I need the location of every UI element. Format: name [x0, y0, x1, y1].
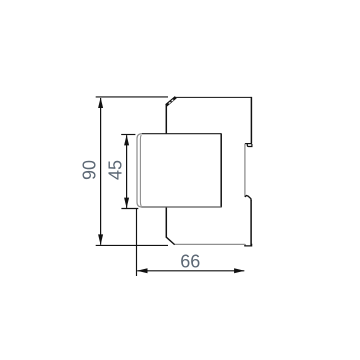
node body-bottom-edge — [174, 243, 245, 245]
node dim45-arrow-up — [124, 135, 129, 146]
node body-foot-bottom-right — [245, 244, 252, 246]
node body-left-edge-lower — [165, 207, 167, 238]
node front-block-bottom-edge — [142, 206, 222, 208]
node front-block-inner-edge-line — [139, 135, 142, 206]
node dim90-label — [80, 160, 100, 180]
node dim66-ext-left — [136, 209, 138, 277]
node chamfer-hatch-slit-2 — [172, 100, 174, 102]
node dim90-arrow-up — [98, 98, 103, 109]
node dim66-line — [137, 270, 244, 272]
node body-top-edge — [175, 96, 251, 98]
node dim90-line — [100, 98, 102, 245]
node body-left-edge-upper — [165, 105, 167, 134]
node body-right-edge-upper — [250, 97, 252, 144]
node dim45-arrow-down — [124, 198, 129, 209]
node dim45-label — [106, 160, 126, 180]
node front-block-left-rounded-edge — [137, 134, 142, 207]
node body-chamfer-bottom-left — [166, 237, 174, 244]
node dim45-ext-bottom — [121, 208, 138, 210]
node dim45-ext-top — [121, 134, 135, 136]
node rail-hook-bottom — [245, 196, 251, 201]
node dim66-arrow-left — [137, 268, 148, 273]
node rail-hook-top — [247, 144, 252, 147]
node dim90-ext-bottom — [96, 244, 168, 246]
node dim66-arrow-right — [234, 268, 245, 273]
svg-text:45: 45 — [106, 160, 126, 180]
node chamfer-hatch-slit-1 — [169, 102, 171, 104]
node rail-step-top — [245, 143, 252, 145]
node body-chamfer-top-left-hatched — [166, 97, 176, 105]
node dim90-arrow-down — [98, 234, 103, 245]
node front-block-right-edge — [220, 133, 222, 207]
node dim90-ext-top — [96, 96, 168, 98]
svg-text:90: 90 — [80, 160, 100, 180]
node body-right-edge-lower — [250, 200, 252, 246]
node front-block-top-edge — [142, 133, 222, 135]
node dim45-line — [126, 135, 128, 208]
node front-block-fill — [137, 134, 221, 207]
node rail-recess-line — [244, 144, 246, 197]
svg-text:66: 66 — [180, 252, 200, 272]
